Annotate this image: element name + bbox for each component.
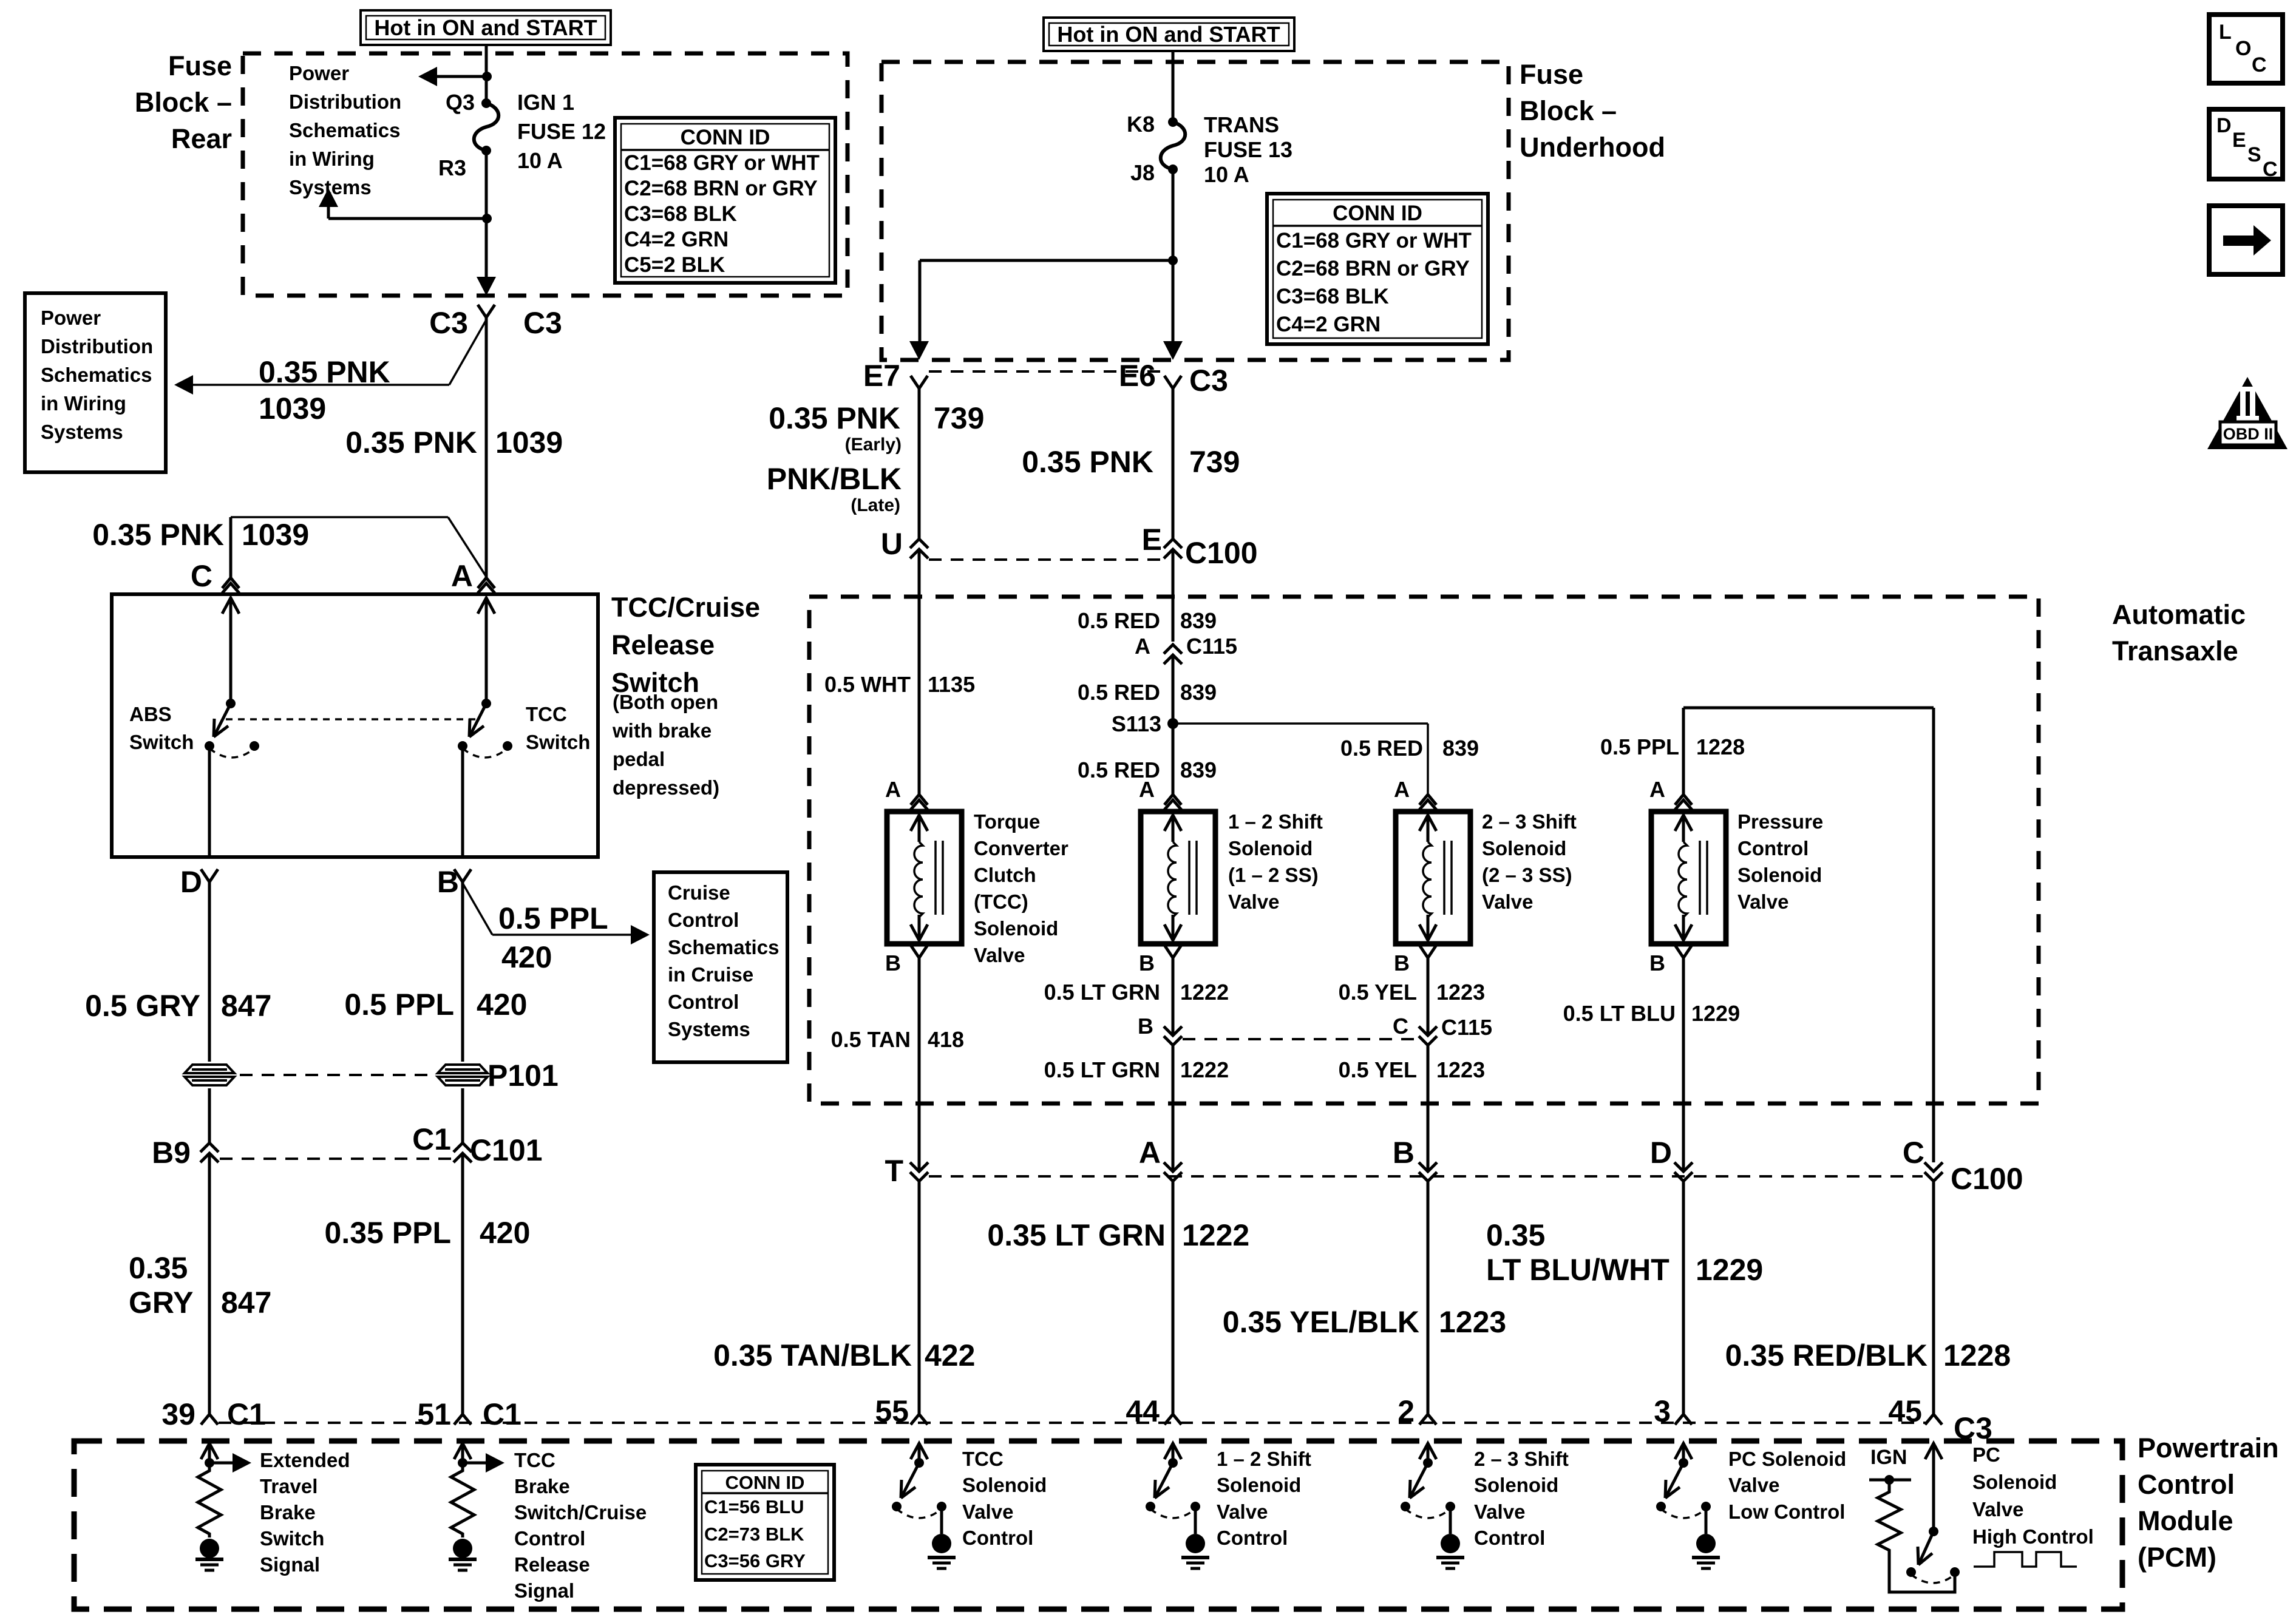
svg-text:Cruise: Cruise (668, 881, 730, 904)
svg-text:Power: Power (41, 307, 101, 329)
terminal 3 (1675, 1414, 1683, 1425)
svg-text:B: B (885, 951, 901, 975)
svg-text:C1=56 BLU: C1=56 BLU (704, 1496, 804, 1517)
svg-text:Solenoid: Solenoid (1474, 1474, 1558, 1496)
svg-text:Switch: Switch (260, 1527, 324, 1550)
branch wire to power distribution schematics arrow (449, 320, 486, 385)
svg-text:10 A: 10 A (1204, 162, 1249, 187)
svg-text:S: S (2247, 143, 2261, 166)
svg-text:S113: S113 (1112, 711, 1161, 736)
svg-text:839: 839 (1180, 608, 1217, 633)
svg-text:A: A (1135, 634, 1150, 659)
wire S113 branch to 2-3 solenoid (1173, 722, 1428, 725)
svg-text:1228: 1228 (1696, 734, 1745, 759)
svg-text:Rear: Rear (171, 123, 232, 154)
dashed link U-E (929, 558, 1163, 561)
PCM input: extended travel brake switch signal (201, 1443, 218, 1459)
connector D C100 (1674, 1162, 1693, 1171)
svg-text:Distribution: Distribution (41, 335, 153, 358)
svg-text:(2 – 3 SS): (2 – 3 SS) (1482, 864, 1572, 886)
CONN ID table (PCM) (696, 1465, 834, 1580)
svg-text:Solenoid: Solenoid (1482, 837, 1566, 859)
svg-text:Control: Control (668, 991, 739, 1013)
box: Cruise Control Schematics in Cruise Control Systems (654, 872, 787, 1062)
terminal A of pressure control solenoid (1675, 795, 1683, 805)
svg-text:Control: Control (1217, 1527, 1288, 1549)
junction dot (482, 72, 492, 81)
svg-text:Schematics: Schematics (668, 936, 779, 958)
svg-text:PC: PC (1972, 1443, 2000, 1466)
svg-text:2 – 3 Shift: 2 – 3 Shift (1482, 810, 1577, 833)
svg-text:Clutch: Clutch (974, 864, 1036, 886)
svg-text:PNK/BLK: PNK/BLK (767, 462, 902, 496)
svg-text:High Control: High Control (1972, 1525, 2094, 1548)
svg-text:1222: 1222 (1180, 980, 1229, 1005)
svg-text:D: D (180, 865, 202, 899)
wire S113 down (1172, 724, 1175, 795)
svg-text:A: A (1394, 777, 1410, 802)
svg-text:0.35 PNK: 0.35 PNK (92, 518, 224, 552)
svg-text:C2=68 BRN or GRY: C2=68 BRN or GRY (624, 177, 818, 200)
svg-text:ABS: ABS (129, 703, 172, 725)
svg-text:C: C (1393, 1014, 1408, 1039)
fuse F12 IGN 1 (Q3-R3) (481, 98, 491, 108)
svg-text:0.5 YEL: 0.5 YEL (1339, 980, 1417, 1005)
svg-text:P101: P101 (487, 1059, 559, 1093)
svg-text:C5=2 BLK: C5=2 BLK (624, 253, 725, 277)
svg-text:B: B (1138, 1014, 1153, 1039)
svg-text:C1=68 GRY or WHT: C1=68 GRY or WHT (1276, 229, 1472, 253)
svg-text:E: E (2232, 129, 2246, 152)
svg-text:0.35: 0.35 (129, 1251, 188, 1285)
svg-text:Valve: Valve (974, 944, 1025, 966)
svg-text:1222: 1222 (1180, 1057, 1229, 1082)
svg-text:Module: Module (2138, 1505, 2233, 1536)
wire TCC B down (918, 958, 921, 1171)
connector E7 (911, 376, 919, 388)
svg-text:C1=68 GRY or WHT: C1=68 GRY or WHT (624, 151, 820, 175)
svg-text:R3: R3 (438, 155, 466, 180)
svg-text:in Wiring: in Wiring (289, 147, 375, 170)
terminal B of release switch (454, 869, 463, 882)
svg-text:Switch: Switch (129, 731, 194, 753)
svg-text:Block –: Block – (1520, 95, 1617, 126)
svg-text:C101: C101 (470, 1133, 543, 1167)
svg-text:0.5 RED: 0.5 RED (1078, 608, 1160, 633)
svg-text:Extended: Extended (260, 1449, 350, 1471)
svg-text:0.5 YEL: 0.5 YEL (1339, 1057, 1417, 1082)
svg-text:(Late): (Late) (851, 495, 900, 515)
svg-text:0.5 PPL: 0.5 PPL (344, 988, 454, 1022)
wire: fuse output down (485, 151, 488, 292)
svg-text:Switch: Switch (526, 731, 590, 753)
svg-text:Schematics: Schematics (289, 119, 400, 141)
wire C101 to PCM 51 (461, 1153, 464, 1414)
svg-text:E6: E6 (1119, 359, 1156, 393)
svg-text:C: C (191, 559, 212, 593)
svg-text:739: 739 (934, 401, 984, 435)
svg-text:Q3: Q3 (446, 90, 475, 115)
svg-text:TCC: TCC (526, 703, 567, 725)
svg-text:IGN 1: IGN 1 (517, 90, 574, 115)
svg-text:LT BLU/WHT: LT BLU/WHT (1486, 1253, 1669, 1287)
icon box LOC (2209, 15, 2283, 83)
svg-text:TCC: TCC (962, 1448, 1004, 1470)
1-2 shift solenoid valve (coil) (1141, 812, 1215, 944)
svg-text:Systems: Systems (41, 421, 123, 443)
svg-text:Brake: Brake (260, 1501, 316, 1524)
svg-text:B9: B9 (152, 1136, 191, 1170)
svg-text:PC Solenoid: PC Solenoid (1728, 1448, 1846, 1470)
TCC switch (right pole) (478, 598, 495, 614)
svg-text:0.5 RED: 0.5 RED (1078, 680, 1160, 705)
junction dot 2 (482, 214, 492, 223)
PCM input: TCC brake switch / cruise control release signal (454, 1443, 471, 1459)
PCM driver: 1-2 shift solenoid valve control (1164, 1443, 1181, 1459)
svg-text:(1 – 2 SS): (1 – 2 SS) (1228, 864, 1319, 886)
svg-text:418: 418 (928, 1027, 964, 1052)
wire E down to A C115 (1172, 549, 1175, 642)
svg-text:Release: Release (611, 629, 715, 660)
svg-text:739: 739 (1189, 445, 1240, 479)
svg-text:A: A (885, 777, 901, 802)
svg-text:1039: 1039 (259, 392, 326, 425)
svg-text:10 A: 10 A (517, 148, 563, 173)
svg-text:Hot in ON and START: Hot in ON and START (1057, 22, 1280, 47)
svg-text:1 – 2 Shift: 1 – 2 Shift (1217, 1448, 1311, 1470)
svg-text:Signal: Signal (260, 1553, 320, 1576)
svg-text:FUSE 13: FUSE 13 (1204, 137, 1292, 162)
svg-text:J8: J8 (1130, 160, 1155, 185)
svg-text:Valve: Valve (1217, 1500, 1268, 1523)
dashed link B-C C115 (1183, 1038, 1418, 1040)
grommet P101 (left) (185, 1065, 234, 1085)
connector B9 (double chevron) (200, 1143, 219, 1152)
wire B9 to PCM 39 (208, 1153, 211, 1414)
terminal A of 1-2 shift solenoid (1164, 795, 1173, 805)
svg-text:Solenoid: Solenoid (974, 917, 1058, 940)
svg-text:Converter: Converter (974, 837, 1068, 859)
wire: trans fuse feed (1172, 51, 1175, 122)
CONN ID table (fuse block underhood) (1267, 194, 1488, 344)
PCM driver: PC solenoid valve high control (1925, 1443, 1942, 1459)
svg-text:D: D (1650, 1136, 1672, 1170)
svg-text:pedal: pedal (613, 748, 665, 770)
svg-text:Valve: Valve (962, 1500, 1013, 1523)
terminal C of TCC/Cruise release switch (222, 578, 231, 588)
dashed link P101 (240, 1074, 432, 1076)
svg-text:E7: E7 (863, 359, 900, 393)
svg-text:C3=56 GRY: C3=56 GRY (704, 1550, 806, 1571)
terminal A of TCC solenoid (911, 795, 919, 805)
svg-text:0.35 TAN/BLK: 0.35 TAN/BLK (713, 1338, 912, 1372)
box: Power Distribution Schematics in Wiring Systems (25, 293, 166, 472)
svg-text:U: U (881, 527, 903, 561)
terminal B of pressure control solenoid (1675, 945, 1683, 958)
svg-text:C1: C1 (483, 1397, 521, 1431)
svg-text:Travel: Travel (260, 1475, 318, 1497)
svg-text:847: 847 (221, 1286, 271, 1320)
svg-text:839: 839 (1442, 736, 1479, 761)
svg-text:(TCC): (TCC) (974, 890, 1028, 913)
svg-text:C4=2 GRN: C4=2 GRN (1276, 313, 1381, 336)
svg-text:Hot in ON and START: Hot in ON and START (374, 15, 597, 40)
connector C C115 (lower) (1419, 1026, 1437, 1036)
arrow down E7 (909, 341, 929, 360)
svg-text:depressed): depressed) (613, 776, 719, 799)
svg-text:0.5 LT GRN: 0.5 LT GRN (1044, 1057, 1160, 1082)
svg-text:Valve: Valve (1482, 890, 1533, 913)
svg-text:0.5 PPL: 0.5 PPL (1600, 734, 1679, 759)
arrow lead to power distribution (left) (434, 75, 487, 78)
svg-text:A: A (1139, 1136, 1161, 1170)
svg-text:1039: 1039 (495, 425, 563, 459)
svg-text:0.5 WHT: 0.5 WHT (824, 672, 911, 697)
connector U (C100) (910, 539, 928, 548)
svg-text:Valve: Valve (1728, 1474, 1779, 1496)
svg-text:Control: Control (514, 1527, 585, 1550)
svg-text:A: A (1649, 777, 1665, 802)
terminal B of TCC solenoid (911, 945, 919, 958)
svg-text:B: B (1394, 951, 1410, 975)
dashed box: Powertrain Control Module (PCM) (74, 1441, 2122, 1609)
splice S113 (1167, 718, 1178, 729)
PCM driver: PC solenoid valve low control (1675, 1443, 1692, 1459)
svg-text:0.5 LT GRN: 0.5 LT GRN (1044, 980, 1160, 1005)
TCC solenoid valve (coil) (887, 812, 962, 944)
terminal 2 (1419, 1414, 1428, 1425)
svg-text:in Wiring: in Wiring (41, 392, 126, 415)
svg-text:Control: Control (2138, 1469, 2235, 1500)
dashed box: Fuse Block - Rear (243, 53, 847, 296)
svg-text:Distribution: Distribution (289, 90, 401, 113)
svg-text:(Early): (Early) (845, 435, 902, 455)
label box: Hot in ON and START (right) (1044, 18, 1294, 51)
svg-text:B: B (437, 865, 459, 899)
svg-text:C4=2 GRN: C4=2 GRN (624, 228, 729, 251)
svg-text:CONN ID: CONN ID (1333, 202, 1422, 225)
svg-text:(Both open: (Both open (613, 691, 718, 713)
svg-text:B: B (1393, 1136, 1415, 1170)
svg-text:1223: 1223 (1439, 1305, 1506, 1339)
svg-text:C3: C3 (1189, 364, 1228, 398)
svg-text:with brake: with brake (612, 719, 712, 742)
wire E6 to E (1172, 388, 1175, 539)
ABS switch (left pole) (222, 598, 239, 614)
dashed box: Automatic Transaxle (809, 597, 2039, 1103)
svg-text:51: 51 (417, 1397, 451, 1431)
svg-text:0.5 LT BLU: 0.5 LT BLU (1563, 1001, 1676, 1026)
svg-text:Valve: Valve (1228, 890, 1279, 913)
svg-text:420: 420 (501, 940, 552, 974)
svg-text:420: 420 (477, 988, 527, 1022)
connector A C115 (1164, 645, 1182, 654)
svg-text:Signal: Signal (514, 1579, 574, 1602)
connector A C100 (1164, 1162, 1182, 1171)
svg-text:C3: C3 (523, 306, 562, 340)
svg-text:0.5 TAN: 0.5 TAN (831, 1027, 911, 1052)
svg-text:847: 847 (221, 989, 271, 1023)
svg-text:0.35 PNK: 0.35 PNK (1022, 445, 1153, 479)
svg-text:420: 420 (480, 1216, 530, 1250)
svg-text:422: 422 (925, 1338, 975, 1372)
terminal 55 (911, 1414, 919, 1425)
svg-text:C2=73 BLK: C2=73 BLK (704, 1524, 804, 1545)
svg-text:1223: 1223 (1436, 1057, 1485, 1082)
terminal D of release switch (201, 869, 209, 882)
svg-text:Solenoid: Solenoid (1972, 1471, 2057, 1493)
svg-text:1039: 1039 (242, 518, 309, 552)
svg-text:Schematics: Schematics (41, 364, 152, 386)
wire: fuse feed from Hot box (485, 45, 488, 103)
dashed link C100 row (929, 1175, 1923, 1178)
svg-text:TCC: TCC (514, 1449, 555, 1471)
svg-text:Systems: Systems (668, 1018, 750, 1040)
svg-text:0.5 PPL: 0.5 PPL (498, 901, 608, 935)
svg-text:CONN ID: CONN ID (725, 1472, 805, 1493)
svg-text:Brake: Brake (514, 1475, 570, 1497)
svg-text:1222: 1222 (1182, 1218, 1249, 1252)
svg-text:1 – 2 Shift: 1 – 2 Shift (1228, 810, 1323, 833)
wire down to B9 (208, 1088, 211, 1143)
svg-text:B: B (1139, 951, 1155, 975)
2-3 shift solenoid valve (coil) (1396, 812, 1470, 944)
terminal 45 C3 (1925, 1414, 1934, 1425)
svg-text:Automatic: Automatic (2112, 599, 2246, 630)
svg-text:FUSE 12: FUSE 12 (517, 119, 606, 144)
svg-text:A: A (1139, 777, 1155, 802)
branch to up-arrow (power distribution) (328, 217, 487, 220)
svg-text:C: C (2263, 158, 2278, 181)
terminal 39 C1 (201, 1414, 209, 1425)
connector C1 / C101 (double chevron) (453, 1143, 472, 1152)
svg-text:1229: 1229 (1691, 1001, 1740, 1026)
svg-text:39: 39 (161, 1397, 195, 1431)
svg-text:0.5 RED: 0.5 RED (1340, 736, 1423, 761)
connector C C100 (1924, 1162, 1943, 1171)
wire down to C101 (461, 1088, 464, 1143)
svg-text:Solenoid: Solenoid (1217, 1474, 1301, 1496)
wire 1-2 B down (1172, 958, 1175, 1036)
svg-text:C100: C100 (1951, 1162, 2023, 1196)
svg-text:(PCM): (PCM) (2138, 1542, 2216, 1573)
branch wire to E7 (920, 259, 1173, 262)
pressure control solenoid valve (coil) (1651, 812, 1726, 944)
connector B C100 (1419, 1162, 1437, 1171)
svg-text:B: B (1649, 951, 1665, 975)
PCM driver: 2-3 shift solenoid valve control (1419, 1443, 1436, 1459)
label box: Hot in ON and START (left) (361, 10, 611, 45)
svg-text:C3: C3 (429, 306, 468, 340)
svg-text:1229: 1229 (1696, 1253, 1763, 1287)
svg-text:E: E (1142, 523, 1162, 557)
svg-text:C115: C115 (1441, 1015, 1492, 1040)
svg-text:C2=68 BRN or GRY: C2=68 BRN or GRY (1276, 257, 1470, 280)
junction dot (1168, 256, 1178, 265)
svg-text:Control: Control (962, 1527, 1033, 1549)
svg-text:T: T (885, 1154, 903, 1188)
dashed link B9-C101 (220, 1158, 452, 1160)
terminal A of 2-3 shift solenoid (1419, 795, 1428, 805)
svg-text:Torque: Torque (974, 810, 1040, 833)
svg-text:K8: K8 (1127, 112, 1155, 137)
svg-text:Solenoid: Solenoid (962, 1474, 1047, 1496)
box: TCC/Cruise Release Switch (112, 594, 598, 857)
wire: 0.35 PNK 1039 main down to A (485, 317, 488, 578)
svg-text:2 – 3 Shift: 2 – 3 Shift (1474, 1448, 1569, 1470)
svg-text:839: 839 (1180, 758, 1217, 782)
svg-text:839: 839 (1180, 680, 1217, 705)
svg-text:Power: Power (289, 62, 349, 84)
svg-text:Block –: Block – (135, 87, 232, 118)
svg-text:Low Control: Low Control (1728, 1500, 1845, 1523)
svg-text:D: D (2216, 114, 2232, 137)
svg-text:Fuse: Fuse (168, 50, 232, 81)
connector E (C100) (1164, 539, 1182, 548)
wire E7 to U (918, 388, 921, 539)
grommet P101 (right) (438, 1065, 487, 1085)
svg-text:in Cruise: in Cruise (668, 963, 753, 986)
svg-text:L: L (2219, 21, 2232, 44)
branch wire 0.5 PPL 420 to cruise control schematics (463, 883, 492, 935)
svg-text:0.35 PNK: 0.35 PNK (259, 355, 390, 389)
wire pressure solenoid feed 0.5 PPL 1228 (1682, 708, 1685, 795)
svg-text:0.35 PNK: 0.35 PNK (769, 401, 900, 435)
terminal B of 2-3 shift solenoid (1419, 945, 1428, 958)
svg-text:CONN ID: CONN ID (681, 126, 770, 149)
svg-text:Underhood: Underhood (1520, 132, 1665, 163)
svg-text:0.35: 0.35 (1486, 1218, 1545, 1252)
svg-text:Transaxle: Transaxle (2112, 636, 2238, 666)
svg-text:IGN: IGN (1870, 1446, 1907, 1469)
svg-text:Control: Control (668, 909, 739, 931)
svg-text:Powertrain: Powertrain (2138, 1432, 2279, 1463)
wire U down into transaxle (918, 549, 921, 795)
svg-text:Switch/Cruise: Switch/Cruise (514, 1501, 647, 1524)
wire pressure B down (1682, 958, 1685, 1171)
svg-text:Release: Release (514, 1553, 590, 1576)
svg-text:TRANS: TRANS (1204, 112, 1279, 137)
svg-text:C3=68 BLK: C3=68 BLK (1276, 285, 1389, 308)
svg-text:OBD II: OBD II (2223, 425, 2274, 443)
arrow down E6 (1163, 341, 1183, 360)
svg-text:Control: Control (1737, 837, 1809, 859)
dashed link PCM terminal row (219, 1422, 1926, 1424)
connector E6 C3 (1164, 376, 1173, 388)
svg-text:Solenoid: Solenoid (1737, 864, 1822, 886)
branch wire to C input of release switch (231, 516, 448, 518)
svg-text:1223: 1223 (1436, 980, 1485, 1005)
svg-text:Solenoid: Solenoid (1228, 837, 1313, 859)
svg-text:Valve: Valve (1737, 890, 1788, 913)
svg-text:GRY: GRY (129, 1286, 194, 1320)
svg-text:C1: C1 (227, 1397, 266, 1431)
svg-text:1135: 1135 (928, 672, 975, 697)
connector B C115 (lower) (1164, 1026, 1182, 1036)
terminal A of TCC/Cruise release switch (478, 578, 486, 588)
svg-text:C1: C1 (412, 1122, 451, 1156)
wire 2-3 B down (1427, 958, 1430, 1036)
svg-text:0.35 PNK: 0.35 PNK (345, 425, 477, 459)
connector C3 (fork) (478, 305, 486, 317)
CONN ID table (fuse block rear) (615, 118, 835, 283)
svg-text:0.35 RED/BLK: 0.35 RED/BLK (1725, 1338, 1927, 1372)
terminal 51 C1 (454, 1414, 463, 1425)
svg-text:TCC/Cruise: TCC/Cruise (611, 592, 760, 623)
wire A C115 to S113 (1172, 655, 1175, 724)
svg-text:C115: C115 (1186, 634, 1237, 659)
svg-text:O: O (2235, 37, 2251, 60)
